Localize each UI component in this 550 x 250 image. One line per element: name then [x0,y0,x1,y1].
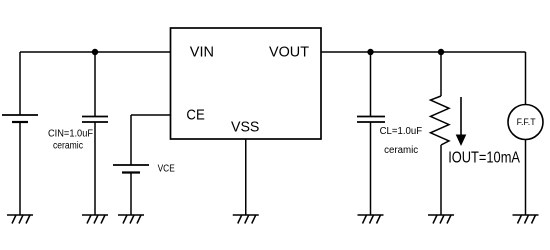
svg-text:CL=1.0uF: CL=1.0uF [380,126,423,137]
ground meter [513,215,539,224]
svg-text:ceramic: ceramic [384,145,418,156]
svg-text:IOUT=10mA: IOUT=10mA [448,149,520,166]
ground R [428,215,454,224]
wire VCE bottom [130,173,132,216]
ground CL [358,215,384,224]
wire VOUT rail (IC to meter) [321,51,526,53]
junction node CL [367,49,373,55]
wire CL bottom [370,122,372,215]
wire meter bottom [525,140,527,216]
svg-text:CIN=1.0uF: CIN=1.0uF [48,128,93,139]
ground CIN [82,215,108,224]
label CIN=1.0uF ceramic [48,128,93,151]
wire R bottom [440,145,442,215]
wire CL top [370,52,372,117]
capacitor CL [357,117,385,123]
junction node CIN [92,49,98,55]
wire battery top [19,52,21,115]
svg-text:VIN: VIN [190,44,214,61]
meter FFT circle [508,105,543,140]
wire CE horizontal [131,114,171,116]
wire VIN rail (battery to IC) [20,51,171,53]
svg-text:ceramic: ceramic [53,140,83,151]
wire CIN top [94,52,96,117]
svg-text:VCE: VCE [158,163,175,174]
junction node R load [438,49,444,55]
svg-text:VOUT: VOUT [269,44,309,61]
IC U1 regulator box [171,28,322,139]
label CL=1.0uF ceramic [380,126,423,156]
wire CE vertical [130,115,132,165]
wire R top [440,52,442,96]
capacitor CIN [82,117,108,123]
ground VCE [118,215,144,224]
battery B1 input supply [2,115,38,122]
wire VSS [245,139,247,215]
svg-text:VSS: VSS [231,119,259,136]
svg-text:CE: CE [186,106,204,123]
ground VSS [233,215,259,224]
wire CIN bottom [94,122,96,215]
wire meter top [525,52,527,105]
resistor R load [431,96,450,145]
battery VCE [113,165,149,173]
ground battery [7,215,33,224]
current arrow IOUT [456,97,467,146]
svg-text:F.F.T: F.F.T [517,117,536,127]
wire battery bottom [19,122,21,215]
